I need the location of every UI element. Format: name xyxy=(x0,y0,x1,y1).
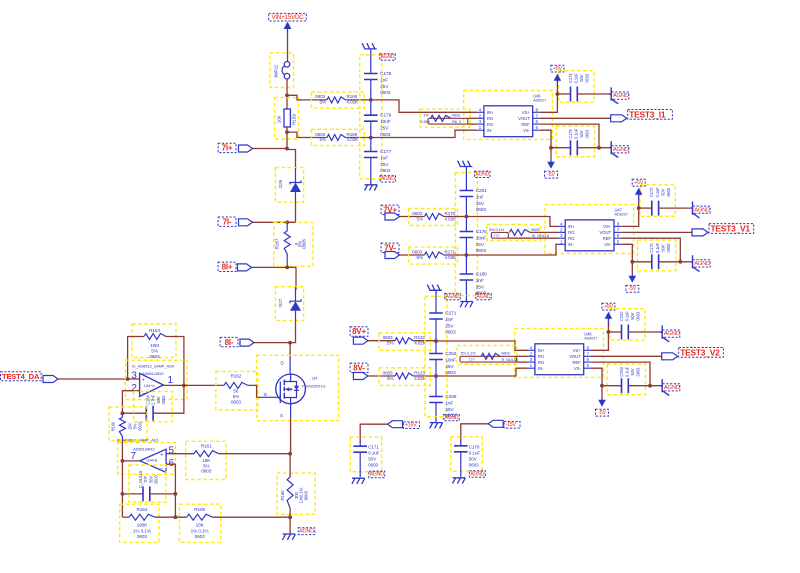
svg-text:C175: C175 xyxy=(568,128,573,138)
svg-text:25V: 25V xyxy=(476,242,485,248)
svg-text:-5V: -5V xyxy=(547,172,555,178)
svg-text:IN-: IN- xyxy=(538,366,544,371)
svg-text:5.36K: 5.36K xyxy=(420,119,430,124)
svg-text:0805: 0805 xyxy=(302,239,307,249)
svg-text:R171: R171 xyxy=(445,250,456,255)
svg-text:50V: 50V xyxy=(660,244,665,251)
svg-text:777: 777 xyxy=(469,357,475,362)
svg-text:0603: 0603 xyxy=(231,399,242,404)
svg-text:76_NULL8: 76_NULL8 xyxy=(531,233,549,238)
svg-text:IC_AD8512_2AMP_AD0: IC_AD8512_2AMP_AD0 xyxy=(132,363,175,368)
svg-text:0603: 0603 xyxy=(138,421,143,431)
svg-text:7nF: 7nF xyxy=(143,476,148,483)
svg-text:50V: 50V xyxy=(148,476,153,483)
svg-text:AGND: AGND xyxy=(299,529,314,535)
svg-text:8I+: 8I+ xyxy=(222,263,233,272)
svg-text:IN-: IN- xyxy=(487,128,493,133)
svg-text:50V: 50V xyxy=(579,74,584,81)
svg-text:C201: C201 xyxy=(476,188,487,194)
svg-text:-15V: -15V xyxy=(506,422,517,428)
svg-text:0.1uF: 0.1uF xyxy=(368,451,380,456)
svg-text:50V: 50V xyxy=(469,456,478,461)
svg-text:C172: C172 xyxy=(649,187,654,197)
svg-text:R123: R123 xyxy=(414,371,425,376)
svg-text:C180: C180 xyxy=(476,272,487,278)
svg-text:R162: R162 xyxy=(230,374,241,379)
svg-text:-5V: -5V xyxy=(598,410,606,416)
svg-text:8V+: 8V+ xyxy=(352,327,366,336)
svg-text:5%: 5% xyxy=(387,341,393,346)
svg-text:4.02K: 4.02K xyxy=(347,137,360,142)
svg-text:10nF: 10nF xyxy=(445,357,456,363)
svg-text:R167: R167 xyxy=(275,238,280,249)
svg-text:0.1uF: 0.1uF xyxy=(655,187,660,198)
svg-text:RG: RG xyxy=(538,360,545,365)
svg-text:0603: 0603 xyxy=(666,187,671,197)
svg-text:VS-: VS- xyxy=(523,128,531,133)
svg-text:0.1uF: 0.1uF xyxy=(469,450,481,455)
svg-text:RG: RG xyxy=(568,236,575,241)
svg-text:R169: R169 xyxy=(347,132,358,137)
svg-text:5%: 5% xyxy=(417,255,423,260)
svg-text:VOUT: VOUT xyxy=(599,230,611,235)
svg-text:0.1uF: 0.1uF xyxy=(655,243,660,254)
svg-text:0603: 0603 xyxy=(412,211,422,216)
svg-text:C253: C253 xyxy=(619,366,624,376)
svg-text:VS+: VS+ xyxy=(573,348,582,353)
svg-text:RG: RG xyxy=(538,354,545,359)
svg-text:0603: 0603 xyxy=(452,113,460,118)
svg-text:0603: 0603 xyxy=(383,371,393,376)
svg-text:C242: C242 xyxy=(619,311,624,321)
svg-text:R164: R164 xyxy=(136,507,147,512)
svg-text:1nF: 1nF xyxy=(476,194,484,200)
svg-text:+5V: +5V xyxy=(634,180,644,186)
svg-text:5%: 5% xyxy=(151,349,158,354)
svg-text:1nF: 1nF xyxy=(380,77,388,83)
svg-text:TEST3_V2: TEST3_V2 xyxy=(680,347,720,357)
svg-text:7I+: 7I+ xyxy=(222,144,233,153)
svg-text:0603: 0603 xyxy=(201,469,212,474)
svg-text:AD8512ARZ: AD8512ARZ xyxy=(133,446,155,451)
svg-text:D26: D26 xyxy=(278,179,283,188)
svg-text:1: 1 xyxy=(168,375,174,386)
svg-text:25V: 25V xyxy=(445,364,454,370)
svg-text:1%: 1% xyxy=(423,113,429,118)
svg-text:0603: 0603 xyxy=(368,463,378,468)
svg-text:S: S xyxy=(280,413,283,418)
svg-text:3: 3 xyxy=(131,371,137,382)
svg-text:25V: 25V xyxy=(380,162,389,168)
svg-text:25V: 25V xyxy=(476,201,485,207)
svg-text:50V: 50V xyxy=(368,457,377,462)
svg-text:190K: 190K xyxy=(137,523,149,528)
svg-text:AGND: AGND xyxy=(477,294,491,300)
svg-text:U44+B: U44+B xyxy=(147,459,158,463)
svg-text:2: 2 xyxy=(131,383,137,394)
svg-text:REF: REF xyxy=(603,236,612,241)
svg-text:1nF: 1nF xyxy=(476,278,484,284)
svg-text:C170: C170 xyxy=(469,444,480,449)
svg-text:C176: C176 xyxy=(476,229,487,235)
svg-text:R159: R159 xyxy=(292,114,297,125)
svg-text:0603: 0603 xyxy=(445,370,456,376)
svg-text:0603: 0603 xyxy=(585,73,590,83)
svg-text:0603: 0603 xyxy=(501,351,509,356)
svg-text:0603: 0603 xyxy=(412,250,422,255)
svg-text:C179: C179 xyxy=(380,113,391,119)
svg-text:0.1uF: 0.1uF xyxy=(625,366,630,377)
svg-text:R160: R160 xyxy=(280,490,285,501)
svg-text:VS-: VS- xyxy=(604,242,612,247)
svg-text:0603: 0603 xyxy=(380,168,391,174)
svg-text:+15V: +15V xyxy=(405,423,417,429)
svg-text:5% 0.1%: 5% 0.1% xyxy=(461,351,477,356)
svg-text:50V: 50V xyxy=(156,396,161,403)
svg-text:Q4: Q4 xyxy=(312,376,318,381)
svg-text:IN+: IN+ xyxy=(568,224,575,229)
svg-text:1nF: 1nF xyxy=(445,317,453,323)
svg-text:10nF: 10nF xyxy=(380,119,391,125)
svg-text:VIN+15VDC: VIN+15VDC xyxy=(271,14,304,21)
svg-text:5%: 5% xyxy=(320,100,326,105)
svg-text:5%: 5% xyxy=(417,216,423,221)
svg-text:C174: C174 xyxy=(568,73,573,83)
svg-text:AD8227: AD8227 xyxy=(533,99,546,103)
svg-text:0603: 0603 xyxy=(161,395,166,405)
svg-text:0603: 0603 xyxy=(154,474,159,484)
svg-text:R165: R165 xyxy=(194,507,205,512)
svg-text:+: + xyxy=(142,377,145,383)
svg-text:0603: 0603 xyxy=(149,354,160,359)
svg-text:2.7nF: 2.7nF xyxy=(151,394,156,405)
svg-text:5% 0.1%: 5% 0.1% xyxy=(489,227,505,232)
svg-text:1% 0.1%: 1% 0.1% xyxy=(133,528,151,533)
svg-text:TEST4_DA: TEST4_DA xyxy=(2,372,40,381)
svg-text:0603: 0603 xyxy=(303,490,308,500)
svg-text:0603: 0603 xyxy=(380,90,391,96)
svg-text:D27: D27 xyxy=(278,298,283,307)
svg-text:R6_3: R6_3 xyxy=(452,119,461,124)
svg-text:+: + xyxy=(160,453,163,459)
svg-text:R163: R163 xyxy=(149,328,160,333)
svg-text:50V: 50V xyxy=(630,368,635,375)
svg-text:C184: C184 xyxy=(145,394,150,404)
svg-text:R_NULL9: R_NULL9 xyxy=(502,357,518,362)
svg-text:AGND: AGND xyxy=(664,385,680,391)
svg-text:AGND: AGND xyxy=(446,294,460,300)
svg-text:0603: 0603 xyxy=(531,227,539,232)
svg-text:0.1uF: 0.1uF xyxy=(574,73,579,84)
svg-text:AGND: AGND xyxy=(381,54,395,60)
svg-text:–: – xyxy=(160,466,163,472)
svg-text:0603: 0603 xyxy=(315,94,325,99)
svg-text:REF: REF xyxy=(521,122,530,127)
svg-text:0603: 0603 xyxy=(636,311,641,321)
svg-text:AGND: AGND xyxy=(613,147,629,153)
svg-text:8I-: 8I- xyxy=(225,338,234,347)
svg-text:IN-: IN- xyxy=(568,242,574,247)
svg-text:6: 6 xyxy=(169,458,175,469)
svg-text:0.1uF: 0.1uF xyxy=(625,311,630,322)
svg-text:25V: 25V xyxy=(445,407,454,413)
svg-text:0603: 0603 xyxy=(476,207,487,213)
svg-text:R170: R170 xyxy=(445,211,456,216)
svg-text:AD8227: AD8227 xyxy=(584,337,597,341)
svg-text:AGND: AGND xyxy=(445,415,459,421)
svg-text:TEST3_I1: TEST3_I1 xyxy=(629,109,666,119)
svg-text:5: 5 xyxy=(169,446,175,457)
svg-text:1nF: 1nF xyxy=(380,155,388,161)
svg-text:56: 56 xyxy=(233,389,239,394)
svg-text:+5V: +5V xyxy=(604,304,614,310)
svg-text:0.1uF: 0.1uF xyxy=(574,128,579,139)
svg-text:0603: 0603 xyxy=(476,248,487,254)
svg-text:0603: 0603 xyxy=(445,330,456,336)
svg-text:AGND: AGND xyxy=(694,207,710,213)
svg-text:5%: 5% xyxy=(387,376,393,381)
svg-text:10K: 10K xyxy=(196,523,205,528)
svg-text:R161: R161 xyxy=(201,443,212,448)
svg-text:JMP22: JMP22 xyxy=(274,64,279,78)
svg-text:IC_AD8512_2AMP_AD1: IC_AD8512_2AMP_AD1 xyxy=(117,438,160,443)
svg-text:0603: 0603 xyxy=(636,367,641,377)
svg-text:AGND: AGND xyxy=(370,472,385,478)
svg-text:R122: R122 xyxy=(414,335,425,340)
svg-text:VS+: VS+ xyxy=(522,110,531,115)
svg-text:IN+: IN+ xyxy=(487,110,494,115)
svg-text:100: 100 xyxy=(276,115,281,123)
svg-text:C178: C178 xyxy=(380,71,391,77)
svg-text:50V: 50V xyxy=(630,312,635,319)
svg-text:25V: 25V xyxy=(476,284,485,290)
svg-text:0603: 0603 xyxy=(469,462,479,467)
svg-text:5%: 5% xyxy=(320,137,326,142)
svg-text:AGND: AGND xyxy=(381,176,395,182)
svg-text:4.02K: 4.02K xyxy=(347,100,360,105)
svg-text:TEST3_V1: TEST3_V1 xyxy=(711,223,751,233)
svg-text:C177: C177 xyxy=(380,149,391,155)
svg-text:VOUT: VOUT xyxy=(569,354,581,359)
svg-text:C_NULL5: C_NULL5 xyxy=(138,470,143,488)
svg-text:0603: 0603 xyxy=(585,129,590,139)
svg-text:+5V: +5V xyxy=(553,66,563,72)
svg-text:50V: 50V xyxy=(579,130,584,137)
svg-text:AGND: AGND xyxy=(664,331,680,337)
svg-text:AGND: AGND xyxy=(613,93,629,99)
svg-text:VS+: VS+ xyxy=(603,224,612,229)
svg-text:R168: R168 xyxy=(347,94,358,99)
svg-text:RG: RG xyxy=(487,116,494,121)
svg-text:1% 0.1%: 1% 0.1% xyxy=(191,528,209,533)
svg-text:U44+A: U44+A xyxy=(144,384,155,388)
svg-text:AD8227: AD8227 xyxy=(615,213,628,217)
svg-text:5%: 5% xyxy=(233,394,240,399)
svg-text:25V: 25V xyxy=(380,126,389,132)
svg-text:AGND: AGND xyxy=(694,261,710,267)
svg-text:0603: 0603 xyxy=(383,335,393,340)
svg-text:C271: C271 xyxy=(445,311,456,317)
svg-text:0603: 0603 xyxy=(195,534,206,539)
svg-text:8V-: 8V- xyxy=(353,364,365,373)
svg-text:0603: 0603 xyxy=(666,243,671,253)
svg-text:10nF: 10nF xyxy=(476,235,487,241)
svg-text:AGND: AGND xyxy=(470,471,485,477)
svg-text:50V: 50V xyxy=(660,189,665,196)
svg-text:RG: RG xyxy=(568,230,575,235)
svg-text:G: G xyxy=(264,392,268,397)
svg-text:C171: C171 xyxy=(368,445,379,450)
svg-text:REF: REF xyxy=(572,360,581,365)
svg-text:-5V: -5V xyxy=(628,286,636,292)
svg-text:R166: R166 xyxy=(110,421,115,431)
svg-text:15K: 15K xyxy=(202,458,211,463)
svg-text:AGND: AGND xyxy=(475,172,489,178)
svg-text:777: 777 xyxy=(494,233,500,238)
svg-text:FTE4153NT1G: FTE4153NT1G xyxy=(302,385,326,389)
svg-text:C173: C173 xyxy=(649,243,654,253)
svg-text:VS-: VS- xyxy=(574,366,582,371)
svg-text:5%: 5% xyxy=(203,463,210,468)
svg-text:RG: RG xyxy=(487,122,494,127)
svg-text:C252: C252 xyxy=(445,351,456,357)
svg-text:25V: 25V xyxy=(445,323,454,329)
svg-text:0603: 0603 xyxy=(315,132,325,137)
svg-text:VOUT: VOUT xyxy=(518,116,530,121)
svg-text:7I-: 7I- xyxy=(223,217,232,226)
svg-text:0603: 0603 xyxy=(137,534,148,539)
svg-text:25V: 25V xyxy=(380,84,389,90)
svg-text:10M: 10M xyxy=(150,343,159,348)
svg-text:1nF: 1nF xyxy=(445,400,453,406)
svg-text:IN+: IN+ xyxy=(538,348,545,353)
svg-text:C269: C269 xyxy=(445,394,456,400)
